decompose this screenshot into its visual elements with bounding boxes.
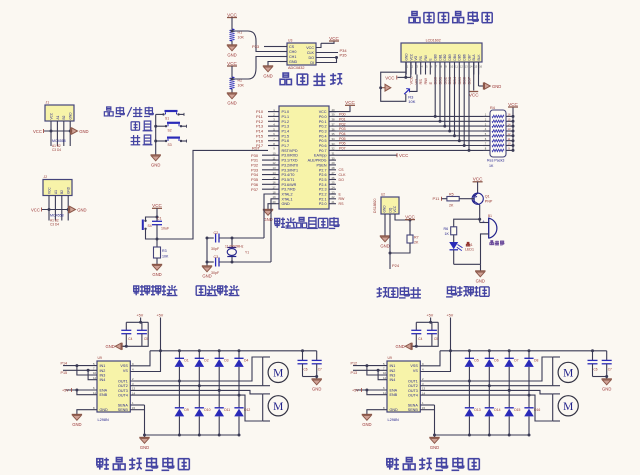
svg-text:BLK: BLK xyxy=(477,54,481,61)
section title LCD display 液晶显示部分 xyxy=(409,11,492,23)
svg-text:D7: D7 xyxy=(514,359,518,363)
buzzer B1 xyxy=(480,214,497,264)
svg-text:OUT2: OUT2 xyxy=(118,384,128,388)
svg-text:+5V: +5V xyxy=(137,314,144,318)
L298N pin texts xyxy=(390,364,419,412)
svg-text:11: 11 xyxy=(383,391,386,395)
diode D7 xyxy=(504,351,518,391)
svg-text:IN1: IN1 xyxy=(100,364,106,368)
svg-text:OUT1: OUT1 xyxy=(118,380,128,384)
svg-text:P0.7: P0.7 xyxy=(319,149,327,153)
motor M1 xyxy=(263,357,289,386)
svg-text:S4: S4 xyxy=(148,224,152,228)
svg-text:C6: C6 xyxy=(304,368,308,372)
svg-text:P1.7: P1.7 xyxy=(282,144,290,148)
svg-text:+5V: +5V xyxy=(447,314,454,318)
svg-text:RS: RS xyxy=(339,202,345,206)
svg-text:C3: C3 xyxy=(214,255,219,259)
resistor R7 2K pullup xyxy=(407,220,419,245)
svg-text:16: 16 xyxy=(272,181,276,185)
svg-text:P0.4: P0.4 xyxy=(319,134,327,138)
ground below buttons xyxy=(151,155,161,168)
diode D1 xyxy=(175,351,189,381)
svg-text:P11: P11 xyxy=(433,196,441,201)
MCU pin name texts xyxy=(282,110,327,206)
svg-text:IN2: IN2 xyxy=(390,369,396,373)
svg-text:P0.1: P0.1 xyxy=(319,120,327,124)
wire VS pin to rail xyxy=(420,351,440,366)
wire ENA ENB to +5V xyxy=(62,388,97,395)
svg-text:D6: D6 xyxy=(494,359,498,363)
svg-text:P2.0: P2.0 xyxy=(319,202,327,206)
svg-text:VCC: VCC xyxy=(393,205,397,212)
svg-text:D3: D3 xyxy=(224,359,228,363)
svg-text:M: M xyxy=(273,401,283,413)
resistor R2 10K xyxy=(230,77,245,89)
ground below R3 xyxy=(152,258,162,277)
wire EA/VPP to VCC xyxy=(336,153,408,158)
capacitor C5 xyxy=(137,322,148,346)
wire R7 to DQ line xyxy=(389,243,411,255)
wire IN2 with label P13 xyxy=(351,369,388,375)
svg-text:PSEN: PSEN xyxy=(316,163,326,167)
svg-text:DB4: DB4 xyxy=(453,54,457,60)
svg-text:1K: 1K xyxy=(489,164,494,168)
svg-text:C3 D4: C3 D4 xyxy=(50,223,59,227)
svg-text:ALE/PROG: ALE/PROG xyxy=(308,159,327,163)
svg-text:ENA: ENA xyxy=(100,389,108,393)
svg-text:VCC: VCC xyxy=(152,203,162,208)
L298N pin numbers xyxy=(93,362,136,410)
net label RST xyxy=(252,145,261,150)
ground at ADC GND pin xyxy=(263,62,287,79)
svg-text:VCC: VCC xyxy=(399,153,408,158)
svg-text:VCC: VCC xyxy=(473,177,483,182)
svg-text:D11: D11 xyxy=(224,408,230,412)
svg-text:GND: GND xyxy=(289,60,298,64)
svg-text:VCC: VCC xyxy=(385,75,394,80)
svg-text:C3 D4: C3 D4 xyxy=(52,148,61,152)
svg-text:U9: U9 xyxy=(98,356,102,360)
svg-text:VCC: VCC xyxy=(227,61,237,66)
svg-text:VCC: VCC xyxy=(33,129,42,134)
svg-text:P1.2: P1.2 xyxy=(282,120,290,124)
node junction D6 column xyxy=(488,384,491,387)
DS18B20 U2 box xyxy=(381,193,399,215)
svg-text:GND: GND xyxy=(152,272,161,277)
svg-text:P1.1: P1.1 xyxy=(282,115,290,119)
motor M2 xyxy=(263,394,289,421)
wire DS18B20 VCC pin to VCC xyxy=(395,214,416,222)
wire bottom rail xyxy=(435,434,530,436)
capacitor C5 xyxy=(427,322,438,346)
svg-text:C2: C2 xyxy=(214,231,219,235)
MCU P2 port net labels xyxy=(339,168,347,206)
svg-text:R6: R6 xyxy=(444,227,449,231)
svg-text:14: 14 xyxy=(132,391,136,395)
wire bottom rail xyxy=(145,434,240,436)
svg-text:P2.6: P2.6 xyxy=(319,173,327,177)
wire caps bottom xyxy=(593,375,609,379)
svg-text:VCC: VCC xyxy=(227,12,237,17)
wire IN1 with label P14 xyxy=(61,361,98,367)
svg-text:P37: P37 xyxy=(251,187,259,192)
sensor module J1 box xyxy=(45,101,74,122)
svg-text:P04: P04 xyxy=(339,132,346,136)
svg-text:P2.2: P2.2 xyxy=(319,193,327,197)
wire XTAL2 xyxy=(264,194,279,238)
svg-text:14: 14 xyxy=(508,122,511,126)
L298N motor driver chip box xyxy=(97,356,130,422)
svg-text:Res Pack3: Res Pack3 xyxy=(487,159,504,163)
svg-text:CH0: CH0 xyxy=(289,50,296,54)
power VCC reset xyxy=(152,203,163,217)
diode D12 xyxy=(234,395,250,436)
svg-text:ADC0832: ADC0832 xyxy=(288,66,304,70)
svg-text:C4: C4 xyxy=(418,337,422,341)
capacitor C2 30pF xyxy=(207,231,264,251)
svg-text:B1: B1 xyxy=(488,214,492,218)
svg-text:GND: GND xyxy=(430,445,439,450)
ground below R2 xyxy=(227,89,237,106)
svg-text:P1.4: P1.4 xyxy=(282,130,290,134)
svg-text:10K: 10K xyxy=(408,99,415,104)
sensor module J2 box xyxy=(43,175,72,196)
ground bottom rail xyxy=(139,435,149,450)
svg-text:L298N: L298N xyxy=(98,418,109,422)
section title motor drive 电机驱动部分 xyxy=(387,457,480,470)
svg-text:P33: P33 xyxy=(252,44,260,49)
wire ENA ENB to +5V xyxy=(352,388,387,395)
svg-text:DB2: DB2 xyxy=(443,54,447,60)
resistor pack right stubs to VCC rail xyxy=(506,102,519,152)
power +5V VS xyxy=(157,314,164,353)
svg-text:P00: P00 xyxy=(339,113,346,117)
section title temperature 温度检测 xyxy=(377,287,421,298)
MCU right pin stubs xyxy=(329,112,336,204)
svg-text:GND: GND xyxy=(390,408,399,412)
svg-text:VS: VS xyxy=(413,369,418,373)
svg-text:13: 13 xyxy=(422,387,426,391)
svg-text:P35: P35 xyxy=(340,53,348,58)
wire OUT3 to motor2 xyxy=(130,390,262,394)
svg-text:15: 15 xyxy=(422,406,426,410)
svg-text:P14: P14 xyxy=(61,361,68,365)
wire to R6 branch xyxy=(454,219,480,227)
cap loop wires xyxy=(411,322,438,348)
svg-text:GND: GND xyxy=(79,129,88,134)
svg-text:P2.1: P2.1 xyxy=(319,197,327,201)
svg-text:XTAL2: XTAL2 xyxy=(282,193,293,197)
wire ADC DI tied to DO xyxy=(316,58,337,63)
svg-text:DO: DO xyxy=(339,178,345,182)
node junction reset top xyxy=(156,216,159,219)
svg-text:13: 13 xyxy=(508,127,511,131)
svg-text:PNP: PNP xyxy=(485,200,493,204)
J1 pin wires xyxy=(51,121,70,146)
resistor pack R4 Res Pack3 1K xyxy=(487,106,506,168)
svg-text:P0.2: P0.2 xyxy=(319,125,327,129)
wire ADC DO to P35 xyxy=(316,53,347,59)
ground arrow at J1 xyxy=(71,127,89,134)
svg-text:1K: 1K xyxy=(445,232,450,236)
wire R2 to ADC CH1 xyxy=(231,57,281,81)
svg-text:13: 13 xyxy=(132,387,136,391)
svg-text:R3: R3 xyxy=(162,249,167,253)
svg-text:RST: RST xyxy=(252,145,261,150)
power VCC above R2 xyxy=(227,61,238,77)
net label P33 at ADC CS xyxy=(252,44,280,49)
LCD1602 pin name labels xyxy=(405,53,481,61)
ADC left pin stubs xyxy=(280,47,287,62)
svg-text:VCC: VCC xyxy=(31,207,40,212)
motor M2 xyxy=(553,394,579,421)
svg-text:GND: GND xyxy=(395,344,404,349)
svg-text:P24: P24 xyxy=(392,263,400,268)
L298N pin numbers xyxy=(383,362,426,410)
svg-text:M: M xyxy=(563,368,573,380)
node junction RST xyxy=(156,238,159,241)
svg-text:11.0592MHz: 11.0592MHz xyxy=(225,244,244,248)
diode D4 xyxy=(234,351,248,395)
ground at LCD pin16 xyxy=(479,62,502,90)
node junction D3 column xyxy=(218,389,221,392)
node junction D4 column xyxy=(238,394,241,397)
svg-text:U3: U3 xyxy=(288,39,292,43)
svg-text:12: 12 xyxy=(272,161,276,165)
svg-text:10: 10 xyxy=(383,371,387,375)
pushbutton S2 xyxy=(161,123,187,133)
wire ADC CLK to P34 xyxy=(316,48,347,53)
wire DQ net down with label P24 xyxy=(390,214,400,269)
svg-text:16: 16 xyxy=(508,113,511,117)
resistor R1 10K xyxy=(230,29,245,41)
svg-text:U2: U2 xyxy=(381,193,385,197)
svg-text:BLA: BLA xyxy=(472,54,476,61)
wire IN2 with label P15 xyxy=(61,369,98,375)
svg-text:10: 10 xyxy=(272,152,276,156)
svg-text:DB7: DB7 xyxy=(467,54,471,60)
wire OUT4 to motor2 xyxy=(130,395,262,421)
svg-text:MC4558: MC4558 xyxy=(52,139,66,143)
svg-text:11: 11 xyxy=(508,137,511,141)
svg-text:IN2: IN2 xyxy=(100,369,106,373)
svg-text:D10: D10 xyxy=(204,408,210,412)
node junction LCD VCC loop xyxy=(404,76,407,79)
wire IN3 xyxy=(367,366,387,375)
wire SENA SENB to bottom rail xyxy=(130,405,146,437)
svg-text:P2.4: P2.4 xyxy=(319,183,327,187)
svg-text:IN3: IN3 xyxy=(390,374,396,378)
section title motor drive 电机驱动部分 xyxy=(97,457,190,470)
svg-text:OUT4: OUT4 xyxy=(118,394,128,398)
section title reset 复位电路 xyxy=(134,285,178,296)
button caption 自动/手动 xyxy=(104,107,153,117)
MCU pin stubs and numbers xyxy=(262,108,335,204)
capacitor C7 xyxy=(312,351,322,377)
svg-text:DB1: DB1 xyxy=(438,54,442,60)
svg-text:A1: A1 xyxy=(54,190,58,194)
svg-text:VCC: VCC xyxy=(329,36,339,41)
svg-text:R5: R5 xyxy=(449,193,454,197)
ground at L298N GND pin xyxy=(72,410,97,427)
svg-text:OUT4: OUT4 xyxy=(408,394,418,398)
svg-text:GND: GND xyxy=(227,53,236,58)
capacitor C4 xyxy=(121,322,132,346)
svg-text:P0.0: P0.0 xyxy=(319,115,327,119)
wire R1 to ADC CH0 xyxy=(231,30,281,52)
svg-text:GND: GND xyxy=(105,344,114,349)
ground right caps xyxy=(312,379,322,392)
svg-text:D8: D8 xyxy=(534,359,538,363)
svg-text:S1: S1 xyxy=(165,117,169,121)
wire LCD contrast loop xyxy=(381,72,406,101)
svg-text:P3.5/T1: P3.5/T1 xyxy=(282,178,295,182)
svg-text:LED1: LED1 xyxy=(465,248,474,252)
ground at L298N GND pin xyxy=(362,410,387,427)
svg-text:12: 12 xyxy=(93,376,97,380)
power +5V VS xyxy=(447,314,454,353)
svg-text:VSS: VSS xyxy=(410,364,418,368)
svg-text:30pF: 30pF xyxy=(211,271,220,275)
power VCC net at J1 xyxy=(33,129,72,134)
svg-text:15: 15 xyxy=(272,176,276,180)
diode D5 xyxy=(465,351,479,381)
svg-text:RS: RS xyxy=(419,56,423,60)
svg-text:15: 15 xyxy=(132,406,136,410)
wire OUT3 to motor2 xyxy=(420,390,552,394)
capacitor C7 xyxy=(602,351,612,377)
svg-text:11: 11 xyxy=(93,391,96,395)
svg-text:VCC: VCC xyxy=(319,110,327,114)
J2 net label row xyxy=(50,219,59,227)
svg-text:DO: DO xyxy=(308,56,314,60)
svg-text:GND: GND xyxy=(492,84,501,89)
svg-text:P1.6: P1.6 xyxy=(282,139,290,143)
svg-text:VO: VO xyxy=(414,55,418,60)
svg-text:VCC: VCC xyxy=(508,102,518,107)
svg-text:DQ: DQ xyxy=(388,207,392,212)
wire RST node to MCU RST pin xyxy=(157,150,268,239)
node junction D1 column xyxy=(178,380,181,383)
svg-text:CS: CS xyxy=(339,168,345,172)
wire button common to ground xyxy=(154,114,160,154)
svg-text:D15: D15 xyxy=(514,408,520,412)
LED1 red xyxy=(449,235,462,264)
svg-text:P3.0/RXD: P3.0/RXD xyxy=(282,154,299,158)
ground at caps xyxy=(395,343,416,350)
diode D10 xyxy=(195,386,211,437)
svg-text:VS: VS xyxy=(123,369,128,373)
svg-text:VCC: VCC xyxy=(306,46,314,50)
svg-text:GND: GND xyxy=(100,408,109,412)
svg-text:M: M xyxy=(563,401,573,413)
pushbutton S3 xyxy=(161,138,187,148)
wire VSS pin to rail xyxy=(420,351,450,372)
svg-text:15: 15 xyxy=(508,118,511,122)
svg-text:LCD1602: LCD1602 xyxy=(426,39,441,43)
net label P11 xyxy=(433,196,447,201)
diode D16 xyxy=(524,395,540,436)
svg-text:12: 12 xyxy=(383,376,387,380)
ground crystal xyxy=(202,262,212,279)
svg-text:D5: D5 xyxy=(474,359,478,363)
transistor Q1 PNP xyxy=(468,193,493,205)
diode D8 xyxy=(524,351,538,395)
potentiometer wiper arrow xyxy=(379,84,391,91)
svg-text:IN4: IN4 xyxy=(390,378,396,382)
svg-text:C6: C6 xyxy=(594,368,598,372)
capacitor C3 30pF xyxy=(207,255,271,275)
svg-text:+5V: +5V xyxy=(427,314,434,318)
svg-text:S2: S2 xyxy=(168,128,172,132)
section title MCU 单片机处理器 xyxy=(275,217,339,228)
svg-text:R4: R4 xyxy=(490,106,495,110)
capacitor C4 xyxy=(411,322,422,346)
resistor R6 1K xyxy=(444,227,457,236)
svg-text:DB0: DB0 xyxy=(434,54,438,60)
svg-text:L298N: L298N xyxy=(388,418,399,422)
svg-text:D4: D4 xyxy=(244,359,248,363)
svg-text:12: 12 xyxy=(508,132,511,136)
svg-text:DI: DI xyxy=(310,61,314,65)
power +5V cap rail xyxy=(427,314,434,324)
J1 part name text xyxy=(52,139,66,143)
svg-text:P12: P12 xyxy=(351,361,358,365)
svg-text:SENA: SENA xyxy=(118,404,129,408)
section title alarm 声光报警 xyxy=(446,286,489,297)
svg-text:B2: B2 xyxy=(60,190,64,194)
wire IN4 xyxy=(88,370,97,379)
wire OUT1 to motor1 xyxy=(420,357,552,381)
svg-text:10K: 10K xyxy=(238,84,245,88)
svg-text:J2: J2 xyxy=(44,175,48,179)
svg-text:VSS: VSS xyxy=(120,364,128,368)
svg-text:A1: A1 xyxy=(56,115,60,119)
node junction D2 column xyxy=(198,384,201,387)
svg-text:IN4: IN4 xyxy=(100,378,106,382)
resistor pack left stubs xyxy=(483,113,490,151)
svg-text:C1: C1 xyxy=(157,217,162,221)
node junction D8 column xyxy=(528,394,531,397)
ground below R1 xyxy=(227,41,237,58)
node junction D7 column xyxy=(508,389,511,392)
wire alarm bottom rail xyxy=(454,264,481,271)
wire top supply rail xyxy=(440,349,607,352)
section title crystal 晶振电路 xyxy=(196,285,239,296)
svg-text:P07: P07 xyxy=(339,147,346,151)
svg-text:P3.4/T0: P3.4/T0 xyxy=(282,173,295,177)
svg-text:10: 10 xyxy=(508,142,511,146)
svg-text:P3.3/INT1: P3.3/INT1 xyxy=(282,168,299,172)
svg-text:D9: D9 xyxy=(184,408,188,412)
L298N motor driver chip box xyxy=(387,356,420,422)
resistor R5 2K base xyxy=(447,193,468,208)
svg-text:Q1: Q1 xyxy=(485,195,490,199)
svg-text:+5V: +5V xyxy=(157,314,164,318)
svg-text:CLK: CLK xyxy=(339,173,347,177)
svg-text:OUT1: OUT1 xyxy=(408,380,418,384)
svg-text:CLK: CLK xyxy=(307,51,315,55)
svg-text:14: 14 xyxy=(272,171,276,175)
wire top supply rail xyxy=(150,349,317,352)
wire XTAL1 xyxy=(271,199,279,262)
wire IN4 xyxy=(378,370,387,379)
ground alarm xyxy=(475,271,485,284)
wire collector down xyxy=(478,205,481,223)
svg-text:10: 10 xyxy=(93,371,97,375)
svg-text:CH1: CH1 xyxy=(289,55,296,59)
